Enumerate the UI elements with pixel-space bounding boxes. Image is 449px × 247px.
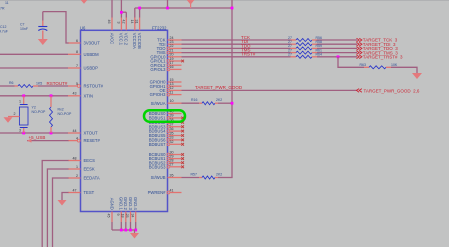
svg-text:9: 9 [116,214,120,216]
pin 14 VCCIOA (U6 top) [130,8,137,49]
wire TDO net [182,47,291,49]
svg-text:46: 46 [107,20,111,24]
svg-text:10K: 10K [391,63,398,67]
svg-text:Rx2: Rx2 [58,108,64,112]
label C12 4.7uF (cut at edge) [0,25,8,33]
label Y2 NO-POP [32,106,46,115]
pin 22 TDO (U6 right) [157,44,182,51]
wire SI/WUB to R57 [182,177,200,179]
wire 3V3OUT to C7 [43,12,69,43]
svg-text:Y2: Y2 [32,106,36,110]
wire R57 to VCC vertical [218,177,233,179]
svg-text:SI/WUB: SI/WUB [151,175,166,180]
wire VCC vertical x=232 (to SI/WU pullups) [231,0,233,178]
ground (C7) [38,39,48,45]
junction gnd bus [120,229,123,232]
power arrow on rail [190,4,192,8]
pin 36 BDBUS4 (U6 right) [149,127,184,134]
power arrow above U6 [80,0,88,4]
junction VCC trunk [120,11,123,14]
pin 12 OE (U6 right) [159,86,181,93]
ground (Y2) [4,117,13,123]
svg-text:25: 25 [125,214,129,218]
wire USBDM [0,53,68,55]
svg-text:GND.4: GND.4 [133,197,138,210]
pin 9 GND.1 (U6 bottom) [116,197,124,230]
junction XTIN/Y2 [22,94,25,97]
svg-text:43: 43 [73,92,77,96]
svg-text:8: 8 [76,50,78,54]
wire R63 to ground [391,67,417,73]
wire vertical feed at x=167.5 [167,0,169,8]
junction rail/feed [166,7,169,10]
svg-text:EEDATA: EEDATA [84,176,100,181]
svg-text:+5_USB: +5_USB [29,135,46,140]
svg-text:USBDM: USBDM [84,52,100,57]
svg-text:33: 33 [170,136,174,140]
junction SI/WUA pullup [231,102,234,105]
svg-text:32: 32 [170,140,174,144]
svg-text:R6: R6 [9,81,14,85]
svg-text:TARGET_PWR_GOOD 2,6: TARGET_PWR_GOOD 2,6 [364,88,420,93]
pin 28 BCBUS2 (U6 right) [149,159,184,166]
svg-text:7: 7 [76,64,78,68]
wire TRST down to R63 [338,57,364,68]
wire TCK net [182,39,291,41]
svg-text:R64: R64 [316,53,322,57]
svg-text:U6: U6 [80,25,86,30]
pin 24 TCK (U6 right) [157,36,181,43]
svg-text:11: 11 [170,90,174,94]
pin 5 RSTOUT# (U6 left) [68,82,104,89]
wire to off-page [317,39,357,41]
svg-text:GND.1: GND.1 [119,197,124,210]
pin 7 USBDP (U6 left) [68,64,98,71]
label corner fragments [0,1,9,11]
pin 30 BCBUS0 (U6 right) [149,150,184,157]
pin 25 GND.3 (U6 bottom) [125,197,133,230]
pin 13 GPIOH1 (U6 right) [150,82,182,89]
svg-text:3V3OUT: 3V3OUT [84,41,101,46]
svg-text:TRST#: TRST# [241,52,256,57]
svg-text:VCC.2: VCC.2 [124,33,129,46]
svg-text:NO-POP: NO-POP [32,110,46,114]
svg-text:TEST: TEST [84,190,95,195]
pin 23 TDI (U6 right) [159,40,182,47]
pin 3 VCC.1 (U6 top) + wire to image top [116,0,123,46]
pin 20 GPIOL0 (U6 right) [150,53,181,60]
svg-text:36: 36 [170,127,174,131]
junction XTIN/Rx2 [50,94,53,97]
crystal Y2 [19,96,28,133]
junction gnd bus [124,229,127,232]
pin 16 GPIOL3 (U6 right) [150,65,181,72]
pin 4 RESET# (U6 left) [68,136,100,143]
ground (TEST) [58,200,67,206]
svg-text:FT2232: FT2232 [152,25,167,30]
off-page connector TARGET_TCK [357,38,398,43]
pin 31 VCCIOB (U6 top) [135,8,142,49]
capacitor C7 [38,12,47,39]
svg-text:R63: R63 [360,63,366,67]
pin 33 BDBUS6 (U6 right) [149,136,184,143]
svg-text:5: 5 [76,82,78,86]
wire SI/WUA to R16 [182,102,200,104]
svg-text:SI/WUA: SI/WUA [151,101,166,106]
pin 37 BDBUS3 (U6 right) [149,123,184,130]
junction XTOUT/Rx2 [50,132,53,135]
pin 29 BCBUS1 (U6 right) [149,154,184,161]
svg-text:XTOUT: XTOUT [84,131,99,136]
svg-text:EESK: EESK [84,167,95,172]
wire XTOUT [0,132,68,134]
svg-text:42: 42 [121,20,125,24]
pin 46 AVCC (U6 top) + wire to image top [107,0,114,44]
svg-text:1: 1 [76,165,78,169]
svg-text:1: 1 [19,100,21,104]
svg-text:AGND: AGND [109,198,114,210]
pin 41 PWREN# (U6 right) [148,188,182,195]
resistor R57 2K2 [199,176,218,179]
pin 2 (Y2) + wire to ground [8,116,19,118]
wire TDI net [182,43,291,45]
pin 44 XTOUT (U6 left) [68,129,98,136]
pin 34 GND.4 (U6 bottom) [130,197,138,230]
wire to off-page [317,52,357,54]
pin 48 EECS (U6 left) [68,156,95,163]
pin 42 VCC.2 (U6 top) [121,12,128,46]
svg-text:41: 41 [170,188,174,192]
svg-text:45: 45 [107,214,111,218]
junction XTOUT/Y2 [22,132,25,135]
pin 35 BDBUS5 (U6 right) [149,131,184,138]
ground (under U6) [134,230,136,233]
off-page connector TARGET_PWR_GOOD [357,88,420,93]
wire VCC bridge [121,11,126,13]
svg-text:4.7uF: 4.7uF [0,29,8,33]
svg-text:27: 27 [288,53,292,57]
ground (R63) [412,73,422,79]
svg-text:GPIOH3: GPIOH3 [150,92,166,97]
svg-text:PWREN#: PWREN# [148,190,167,195]
svg-text:10: 10 [170,99,174,103]
svg-text:GPIOL3: GPIOL3 [150,67,166,72]
label C7 10nF [20,23,28,31]
resistor R56 27 [291,39,318,42]
svg-text:16: 16 [170,65,174,69]
pin 17 GPIOL2 (U6 right) [150,61,181,68]
pin 47 TEST (U6 left) [68,188,95,195]
svg-text:2K2: 2K2 [216,173,222,177]
resistor R61 27 [291,51,318,54]
pin 2 EEDATA (U6 left) [68,174,100,181]
svg-text:2K2: 2K2 [216,98,222,102]
svg-text:BCBUS3: BCBUS3 [149,164,166,169]
pin 18 GND.2 (U6 bottom) [121,197,129,230]
svg-text:37: 37 [170,123,174,127]
svg-text:R16: R16 [191,98,197,102]
svg-text:NO-POP: NO-POP [58,112,72,116]
svg-text:TARGET_PWR_GOOD: TARGET_PWR_GOOD [195,85,243,90]
wire to off-page [317,56,357,58]
svg-text:VCCIOA: VCCIOA [132,33,137,49]
svg-text:RSTOUT#: RSTOUT# [47,81,68,86]
svg-text:RESET#: RESET# [84,138,101,143]
pin 38 BDBUS2 (U6 right) [149,118,184,125]
svg-text:18: 18 [121,214,125,218]
svg-text:3: 3 [116,22,120,24]
wire TRST# net [182,56,291,58]
pin 45 AGND (U6 bottom) [107,198,115,230]
pin 27 BCBUS3 (U6 right) [149,163,184,170]
pin 11 GPIOH3 (U6 right) [150,90,182,97]
svg-text:3: 3 [19,129,21,133]
svg-text:44: 44 [73,129,77,133]
pin 40 BDBUS0 (U6 right) [149,109,182,116]
wire EEDATA [53,178,69,247]
svg-text:2: 2 [76,174,78,178]
svg-text:VCCIOB: VCCIOB [137,33,142,49]
junction gnd bus [129,229,132,232]
svg-text:1K5: 1K5 [36,81,42,85]
svg-text:34: 34 [130,214,134,218]
svg-text:GND.2: GND.2 [123,197,128,210]
junction gnd bus [134,229,137,232]
svg-text:14: 14 [130,20,134,24]
wire TEST to ground [62,193,69,201]
svg-text:11: 11 [5,1,9,5]
resistor R58 27 [291,43,318,46]
svg-text:31: 31 [135,20,139,24]
svg-text:47: 47 [73,188,77,192]
wire XTIN [0,95,68,97]
svg-text:4: 4 [76,136,78,140]
junction rail/VCCIOB [138,7,141,10]
wire TARGET_PWR_GOOD [182,89,358,91]
wire VCCIO power rail [135,7,232,9]
off-page connector TARGET_TDI [357,42,396,47]
off-page connector TARGET_TDO [357,46,399,51]
wire RSTOUT# left [0,85,15,87]
svg-text:26: 26 [170,173,174,177]
resistor R64 27 [291,55,318,58]
highlight ellipse BDBUS0/BDBUS1 [144,110,185,122]
svg-text:48: 48 [73,156,77,160]
svg-text:35: 35 [170,131,174,135]
pin 19 GPIOL1 (U6 right) [150,57,184,64]
svg-text:6: 6 [76,39,78,43]
svg-text:2: 2 [14,112,16,116]
pin 43 XTIN (U6 left) [68,92,93,99]
junction TRST/R63 [337,55,340,58]
pin 21 TMS (U6 right) [157,48,182,55]
svg-text:AVCC: AVCC [109,33,114,44]
wire to off-page [317,47,357,49]
label Rx2 NO-POP [58,108,72,117]
svg-text:27: 27 [170,163,174,167]
pin 6 3V3OUT (U6 left) [68,39,100,46]
pin 32 BDBUS7 (U6 right) [149,140,184,147]
wire RESET# + power +5_USB [27,140,69,142]
svg-text:10nF: 10nF [20,27,28,31]
svg-text:7R: 7R [0,7,5,11]
pin 39 BDBUS1 (U6 right) [149,114,184,121]
wire ground bus under U6 [112,229,136,231]
svg-text:GND.3: GND.3 [128,197,133,210]
IC U6 FT2232 [80,25,168,211]
resistor R16 2K2 [199,102,218,105]
resistor R63 10K [364,66,391,69]
svg-text:R57: R57 [191,173,197,177]
pin 26 SI/WUB (U6 right) [151,173,182,180]
svg-text:USBDP: USBDP [84,66,99,71]
pin 1 EESK (U6 left) [68,165,95,172]
wire EECS [42,161,68,247]
svg-text:EECS: EECS [84,158,96,163]
resistor R59 27 [291,47,318,50]
resistor R6 [18,85,33,88]
off-page connector TARGET_TRST# [357,55,403,60]
pin 15 GPIOH0 (U6 right) [150,78,182,85]
wire R16 to VCC vertical [218,102,232,104]
svg-text:BDBUS7: BDBUS7 [149,142,166,147]
svg-text:39: 39 [170,114,174,118]
pin 10 SI/WUA (U6 right) [151,99,182,106]
resistor Rx2 [50,96,53,133]
wire EESK [47,169,68,247]
svg-text:RSTOUT#: RSTOUT# [84,84,104,89]
wire to off-page [317,43,357,45]
svg-text:VCC.1: VCC.1 [119,33,124,46]
wire TMS net [182,52,291,54]
off-page connector TARGET_TMS [357,50,399,55]
svg-text:XTIN: XTIN [84,93,94,98]
svg-text:TARGET_TRST# 3: TARGET_TRST# 3 [363,55,403,60]
junction rail end x=232 [231,7,234,10]
wire USBDP [0,67,68,69]
pin 8 USBDM (U6 left) [68,50,99,57]
